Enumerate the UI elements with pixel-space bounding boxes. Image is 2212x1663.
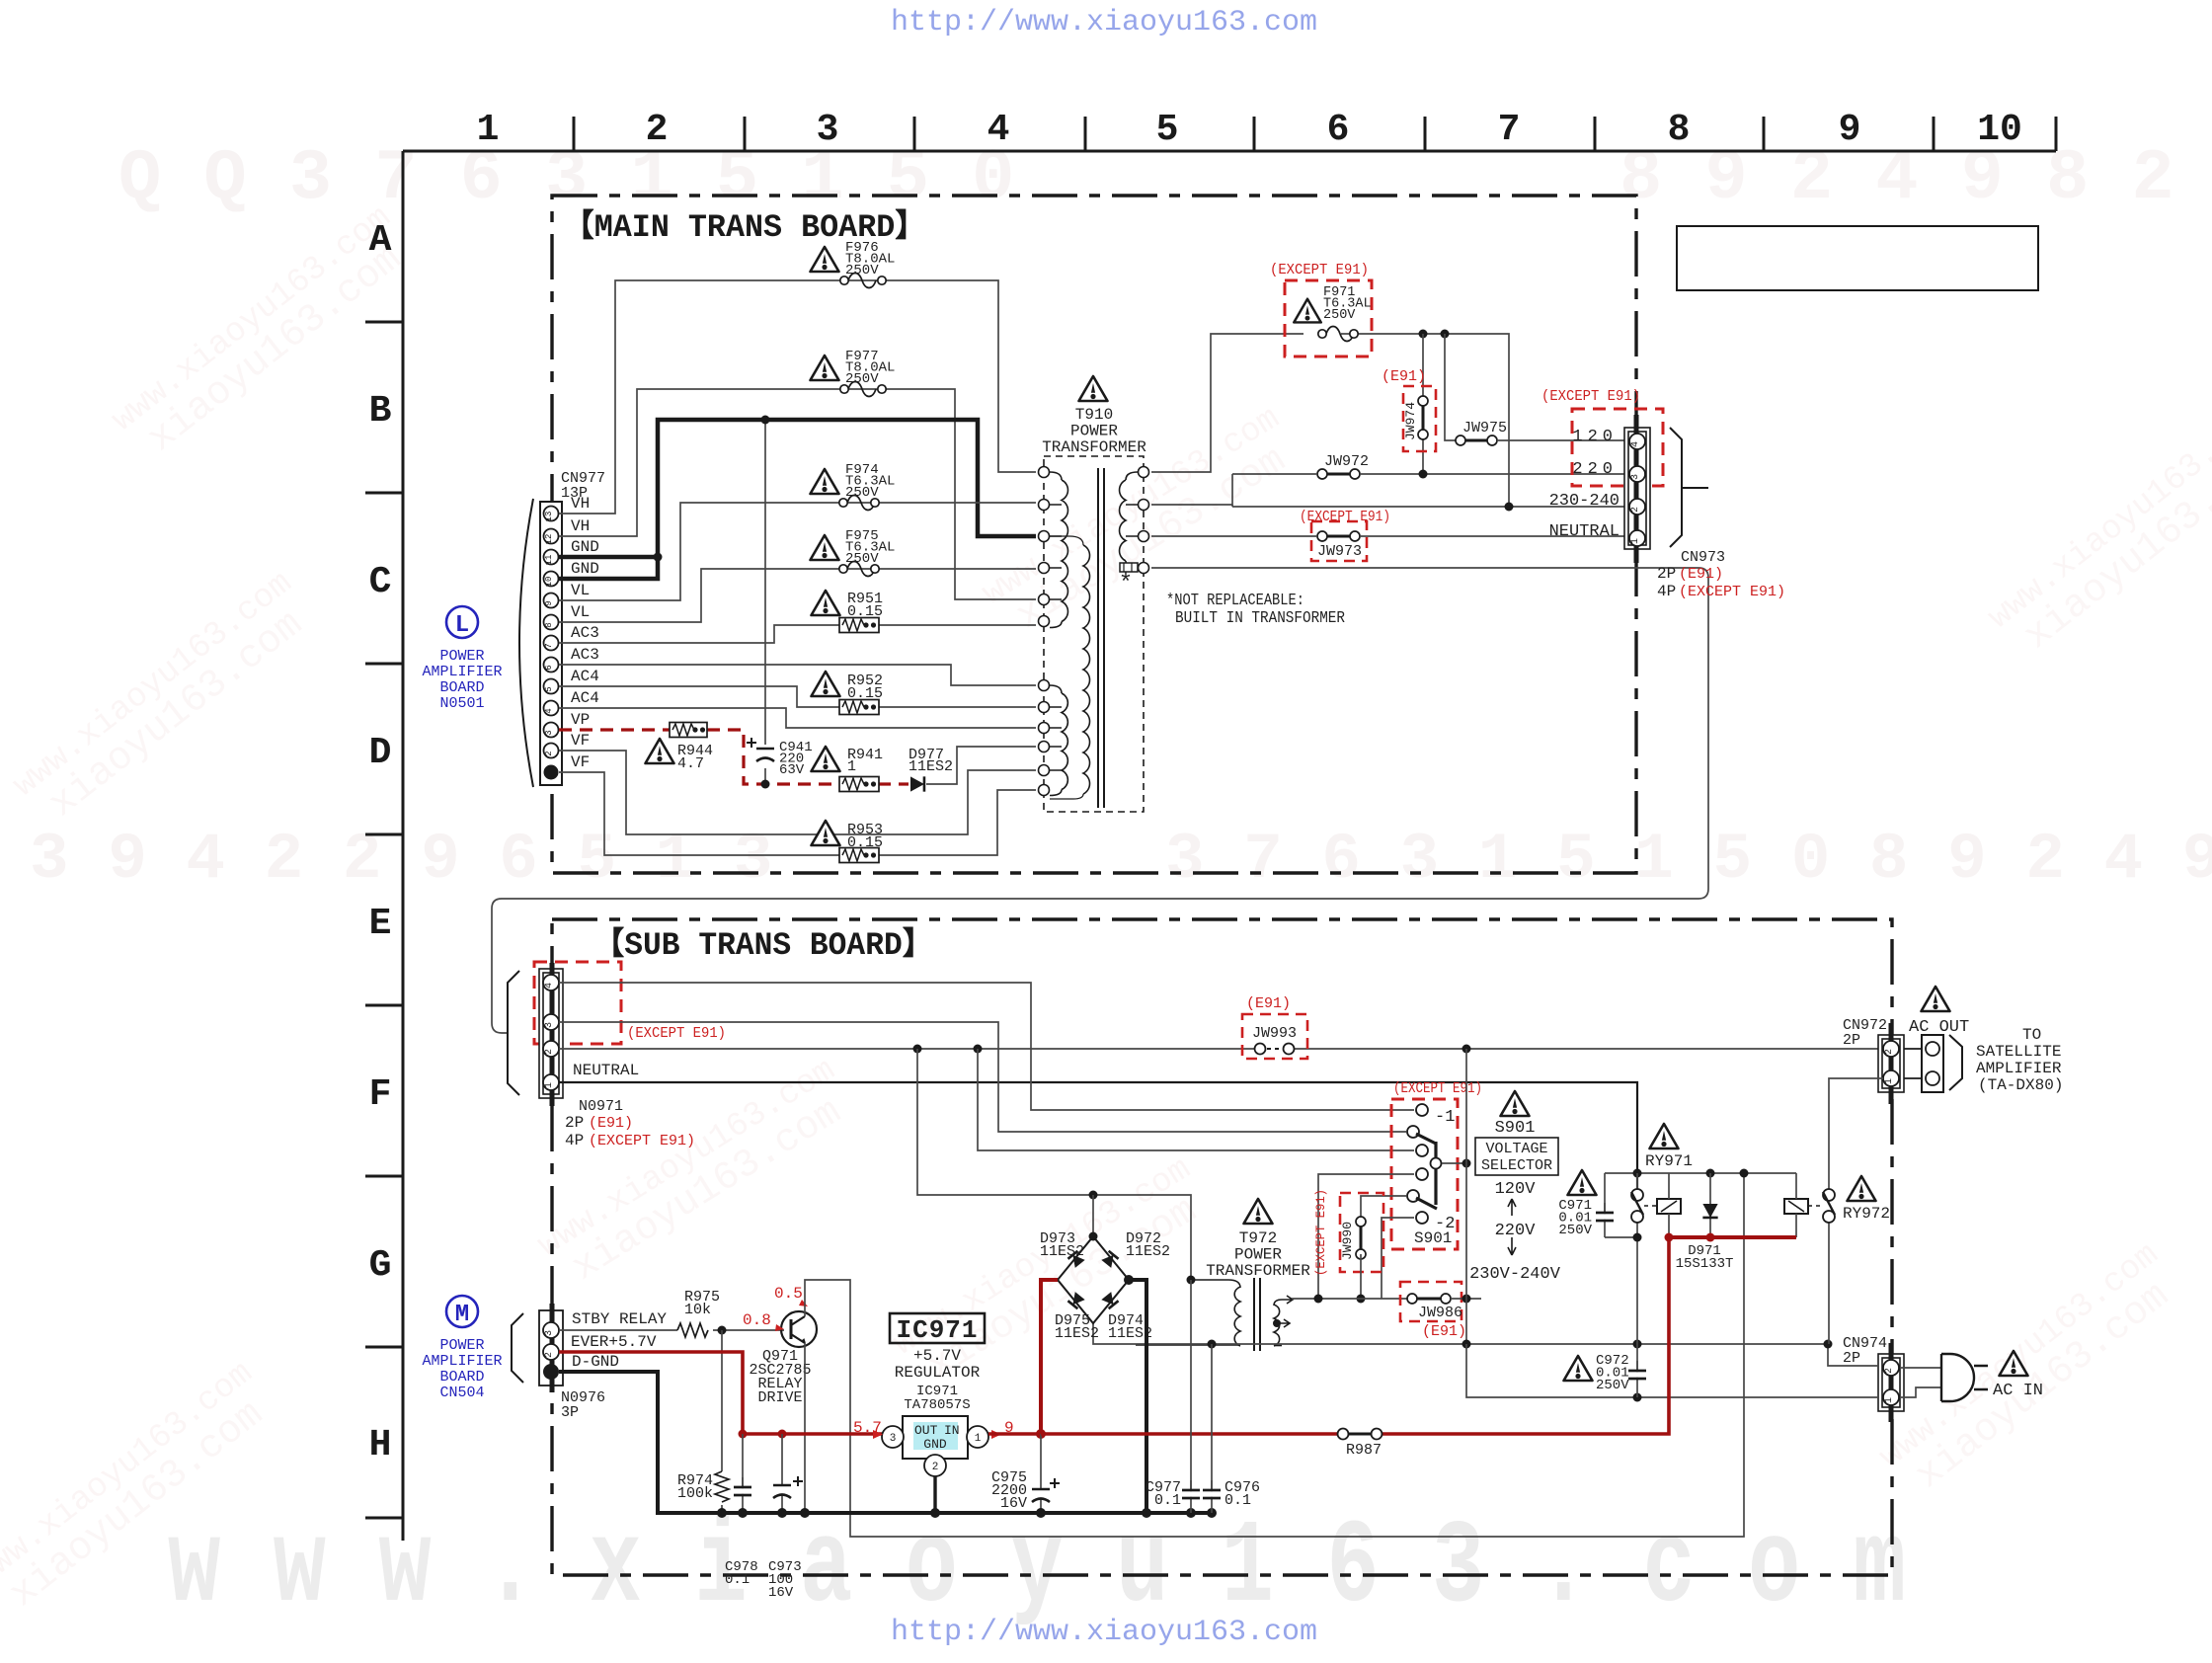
svg-text:2P: 2P bbox=[1843, 1032, 1860, 1049]
svg-text:AMPLIFIER: AMPLIFIER bbox=[422, 1353, 502, 1370]
svg-text:4.7: 4.7 bbox=[677, 755, 704, 772]
svg-text:TRANSFORMER: TRANSFORMER bbox=[1042, 438, 1146, 456]
svg-text:63V: 63V bbox=[779, 762, 805, 778]
svg-text:R987: R987 bbox=[1346, 1442, 1382, 1459]
relay RY971 warning/label bbox=[1650, 1124, 1679, 1148]
relay coil RY972 bbox=[1784, 1199, 1808, 1214]
transformer T910 right coil bbox=[1126, 472, 1138, 480]
transistor Q971 bbox=[781, 1311, 817, 1347]
svg-text:6: 6 bbox=[544, 665, 554, 670]
svg-text:D: D bbox=[369, 732, 392, 774]
svg-text:1: 1 bbox=[1630, 538, 1641, 544]
svg-text:(E91): (E91) bbox=[1679, 566, 1723, 583]
capacitor C973 bbox=[781, 1434, 783, 1513]
svg-text:AC3: AC3 bbox=[571, 624, 599, 642]
svg-text:0.5: 0.5 bbox=[774, 1285, 803, 1303]
svg-text:2: 2 bbox=[544, 1049, 555, 1055]
svg-text:POWER: POWER bbox=[1070, 423, 1118, 440]
power amplifier board L circle bbox=[446, 606, 478, 638]
svg-text:JW990: JW990 bbox=[1340, 1222, 1355, 1260]
wire red to R987 to relay bbox=[1041, 1237, 1669, 1434]
wire AC4 pin5 to R952 to T910 pin8 bbox=[559, 686, 1036, 707]
junction C941 top bbox=[761, 416, 770, 425]
svg-text:3: 3 bbox=[817, 109, 839, 151]
svg-text:(TA-DX80): (TA-DX80) bbox=[1978, 1076, 2063, 1094]
bridge rectifier outline bbox=[1058, 1236, 1129, 1323]
transformer T972 primary coil bbox=[1274, 1300, 1282, 1306]
svg-text:0.1: 0.1 bbox=[1224, 1492, 1251, 1509]
svg-text:TO: TO bbox=[2022, 1026, 2041, 1044]
relay coil RY971 bbox=[1657, 1199, 1681, 1214]
svg-text:VF: VF bbox=[571, 732, 590, 750]
rail bottom junctions bbox=[1633, 1233, 1642, 1242]
main trans board border bbox=[552, 196, 1636, 873]
svg-text:6: 6 bbox=[1327, 109, 1350, 151]
junction C972 bottom bbox=[1633, 1393, 1642, 1402]
svg-text:VF: VF bbox=[571, 753, 590, 771]
svg-text:NEUTRAL: NEUTRAL bbox=[1549, 522, 1619, 541]
svg-text:AC4: AC4 bbox=[571, 668, 599, 685]
capacitor C977 bbox=[1190, 1280, 1192, 1513]
svg-text:2: 2 bbox=[646, 109, 669, 151]
svg-text:220: 220 bbox=[1572, 460, 1618, 479]
AC OUT plug bbox=[1922, 1035, 1943, 1092]
svg-text:AC IN: AC IN bbox=[1993, 1382, 2043, 1400]
fuse F971 red box bbox=[1285, 280, 1372, 356]
svg-text:120: 120 bbox=[1572, 428, 1618, 446]
transformer T972 warning bbox=[1244, 1199, 1273, 1224]
resistor R974 bbox=[721, 1330, 723, 1513]
svg-text:3: 3 bbox=[544, 730, 554, 735]
svg-text:AC3: AC3 bbox=[571, 646, 599, 664]
svg-text:*: * bbox=[1119, 571, 1133, 597]
jumper JW993 red box bbox=[1242, 1014, 1307, 1059]
capacitor C972 bbox=[1636, 1344, 1638, 1397]
gnd junctions bbox=[717, 1508, 727, 1518]
svg-text:8: 8 bbox=[1668, 109, 1691, 151]
svg-text:2P: 2P bbox=[565, 1114, 584, 1132]
fuse F971 bbox=[1294, 299, 1321, 323]
svg-text:11ES2: 11ES2 bbox=[1040, 1243, 1084, 1260]
svg-text:7: 7 bbox=[1498, 109, 1521, 151]
svg-text:OUT: OUT bbox=[914, 1423, 938, 1438]
svg-text:2P: 2P bbox=[1843, 1350, 1860, 1367]
wire T910 pin4 mains cable to sub board bbox=[492, 568, 1708, 1033]
wire VH pin12 to F977 to T910 pin5 bbox=[559, 389, 1036, 599]
wire bottom row T972 to CN974 pin2 bbox=[1093, 1323, 1877, 1366]
svg-text:1: 1 bbox=[477, 109, 500, 151]
svg-text:(E91): (E91) bbox=[1422, 1323, 1466, 1340]
wire STBY row bbox=[559, 1329, 784, 1331]
svg-text:220V: 220V bbox=[1495, 1222, 1537, 1240]
S901 fixed4 wire to JW986 row bbox=[1318, 1174, 1414, 1299]
relay RY972 switch bbox=[1828, 1085, 1830, 1344]
svg-text:-1: -1 bbox=[1435, 1108, 1455, 1127]
svg-text:E: E bbox=[369, 903, 392, 945]
IC971 big label box bbox=[890, 1313, 985, 1343]
svg-text:2: 2 bbox=[544, 1352, 555, 1358]
fuse F975 bbox=[811, 535, 839, 560]
svg-text:VL: VL bbox=[571, 603, 590, 621]
N0976 cable bracket bbox=[512, 1313, 523, 1383]
jumper JW973 red box bbox=[1311, 521, 1367, 561]
svg-text:IC971: IC971 bbox=[896, 1315, 978, 1345]
svg-text:4P: 4P bbox=[565, 1132, 584, 1149]
capacitor C978 bbox=[742, 1434, 744, 1513]
svg-text:(EXCEPT E91): (EXCEPT E91) bbox=[1541, 388, 1640, 405]
row ticks bbox=[365, 322, 403, 1518]
fuse F976 bbox=[811, 247, 839, 272]
svg-text:JW993: JW993 bbox=[1252, 1025, 1297, 1042]
svg-text:RY972: RY972 bbox=[1843, 1205, 1890, 1223]
svg-text:250V: 250V bbox=[1596, 1378, 1629, 1393]
wire VL pin9 to F974 to T910 pin2 bbox=[559, 503, 1036, 600]
svg-text:STBY RELAY: STBY RELAY bbox=[572, 1310, 667, 1328]
S901 -2 wire down bbox=[1382, 1218, 1414, 1299]
N0971 cable bracket bbox=[508, 971, 519, 1095]
transformer T972 core bbox=[1254, 1278, 1260, 1351]
svg-text:2P: 2P bbox=[1657, 565, 1676, 583]
wire R953 out under transformer bbox=[559, 772, 1036, 855]
junction C941 red bbox=[761, 780, 770, 789]
transformer T972 primary top pin arrow bbox=[1282, 1296, 1293, 1304]
svg-text:JW974: JW974 bbox=[1403, 402, 1418, 440]
jumper JW974 bbox=[1422, 334, 1424, 474]
svg-text:230V-240V: 230V-240V bbox=[1469, 1265, 1561, 1284]
svg-text:AMPLIFIER: AMPLIFIER bbox=[422, 664, 502, 680]
resistor R951 bbox=[812, 591, 840, 615]
junction JW990 bottom bbox=[1357, 1295, 1366, 1304]
svg-text:11: 11 bbox=[544, 555, 554, 566]
svg-text:CN973: CN973 bbox=[1681, 549, 1725, 566]
capacitor C971 bbox=[1604, 1173, 1606, 1237]
svg-text:C: C bbox=[369, 561, 392, 603]
svg-text:250V: 250V bbox=[845, 371, 879, 387]
wire C941 riser bbox=[764, 420, 766, 784]
svg-text:S901: S901 bbox=[1495, 1119, 1536, 1138]
relay rail bottom bbox=[1605, 1236, 1637, 1238]
svg-text:10k: 10k bbox=[684, 1302, 711, 1318]
column ticks bbox=[574, 117, 2056, 151]
junction JW986 right bbox=[1462, 1295, 1471, 1304]
svg-text:IN: IN bbox=[944, 1423, 960, 1438]
svg-text:M: M bbox=[455, 1302, 469, 1328]
connector CN973 bbox=[1624, 428, 1650, 549]
wire GND pins bold to T910 pin3 bbox=[559, 420, 1036, 579]
svg-text:SATELLITE: SATELLITE bbox=[1976, 1043, 2061, 1061]
svg-text:3: 3 bbox=[544, 1330, 555, 1336]
svg-text:TA78057S: TA78057S bbox=[904, 1397, 970, 1413]
svg-text:CN504: CN504 bbox=[439, 1385, 484, 1401]
svg-text:16V: 16V bbox=[768, 1585, 794, 1601]
svg-text:1: 1 bbox=[847, 758, 856, 775]
wire N0971 pin4 to S901 -1 bbox=[559, 983, 1414, 1110]
svg-text:8: 8 bbox=[544, 622, 554, 627]
svg-text:0.15: 0.15 bbox=[847, 685, 883, 702]
junction GND bbox=[654, 553, 663, 562]
svg-text:0.1: 0.1 bbox=[1154, 1492, 1181, 1509]
AC IN plug bbox=[1941, 1354, 1974, 1401]
svg-text:250V: 250V bbox=[845, 263, 879, 278]
svg-text:H: H bbox=[369, 1424, 392, 1466]
wire JW993 drop to S901 fixed bbox=[978, 1049, 1414, 1150]
svg-text:250V: 250V bbox=[1558, 1223, 1592, 1238]
svg-text:9: 9 bbox=[544, 600, 554, 605]
svg-text:120V: 120V bbox=[1495, 1180, 1537, 1199]
svg-text:BOARD: BOARD bbox=[439, 1369, 484, 1386]
junction row1062 c bbox=[1462, 1045, 1471, 1054]
svg-text:4: 4 bbox=[1630, 441, 1641, 447]
fuse F974 bbox=[811, 469, 839, 494]
svg-text:(EXCEPT E91): (EXCEPT E91) bbox=[1393, 1080, 1482, 1097]
diode D974 bbox=[1101, 1292, 1118, 1308]
wire D977 out to T910 pin10 bbox=[926, 747, 1036, 784]
svg-text:5: 5 bbox=[1156, 109, 1179, 151]
switch S901 contacts bbox=[1416, 1104, 1428, 1116]
IC971 pin1 bbox=[967, 1426, 988, 1448]
svg-text:B: B bbox=[369, 390, 392, 433]
power amplifier board M circle bbox=[446, 1296, 478, 1327]
wire AC3 pin6 to T910 pin7 bbox=[559, 665, 1036, 685]
svg-text:L: L bbox=[455, 612, 469, 639]
svg-text:(EXCEPT E91): (EXCEPT E91) bbox=[589, 1133, 695, 1149]
junction primary top bbox=[1314, 1295, 1323, 1304]
svg-text:2: 2 bbox=[932, 1462, 939, 1473]
transformer T910 primary pins left bbox=[1039, 467, 1050, 478]
wire AC3 pin7 to R951 to T910 pin6 bbox=[559, 625, 1036, 643]
junction F971 out b bbox=[1441, 330, 1450, 339]
svg-text:230-240: 230-240 bbox=[1549, 492, 1619, 511]
svg-text:+5.7V: +5.7V bbox=[913, 1347, 961, 1365]
wire Q971 collector to relays bbox=[805, 1173, 1744, 1537]
wire R941 out red to D977 bbox=[878, 782, 908, 785]
transformer T910 middle winding bbox=[1050, 536, 1083, 545]
svg-text:1: 1 bbox=[544, 1082, 555, 1088]
svg-text:http://www.xiaoyu163.com: http://www.xiaoyu163.com bbox=[891, 6, 1317, 40]
svg-text:AC4: AC4 bbox=[571, 689, 599, 707]
svg-text:250V: 250V bbox=[845, 551, 879, 567]
svg-text:10: 10 bbox=[544, 577, 554, 588]
svg-text:10: 10 bbox=[1977, 109, 2022, 151]
connector CN977 bracket bbox=[519, 499, 533, 787]
relay RY971 switch bbox=[1636, 1173, 1638, 1344]
svg-text:JW973: JW973 bbox=[1317, 543, 1362, 560]
junction S901 common bbox=[1462, 1159, 1471, 1168]
jumper JW990 red box bbox=[1340, 1193, 1383, 1272]
junction red a bbox=[739, 1430, 748, 1439]
resistor R953 bbox=[812, 821, 840, 845]
junction red b bbox=[778, 1430, 787, 1439]
junction base/R974 bbox=[718, 1326, 727, 1335]
svg-text:GND: GND bbox=[571, 538, 599, 556]
wire VF pin2 to R953 bbox=[559, 751, 1036, 834]
svg-text:250V: 250V bbox=[845, 485, 879, 501]
svg-text:T910: T910 bbox=[1075, 406, 1113, 424]
junction bridge top bbox=[1089, 1232, 1098, 1241]
rail junctions bbox=[1633, 1169, 1642, 1178]
wire bridge plus red bbox=[1041, 1280, 1058, 1434]
transformer internal thermal fuse bbox=[1120, 563, 1138, 572]
jumper JW986 red box bbox=[1400, 1282, 1461, 1321]
wire NEUTRAL row to RY971 bbox=[559, 1082, 1637, 1189]
svg-text:(EXCEPT E91): (EXCEPT E91) bbox=[1270, 262, 1369, 278]
diode D975 bbox=[1067, 1292, 1084, 1308]
svg-text:(E91): (E91) bbox=[589, 1115, 633, 1132]
svg-text:BOARD: BOARD bbox=[439, 679, 484, 696]
svg-text:VOLTAGE: VOLTAGE bbox=[1485, 1141, 1547, 1157]
svg-text:13: 13 bbox=[544, 512, 554, 522]
svg-text:POWER: POWER bbox=[439, 1337, 484, 1354]
resistor R952 bbox=[812, 672, 840, 696]
AC OUT warning bbox=[1922, 987, 1950, 1011]
svg-text:VH: VH bbox=[571, 495, 590, 513]
junction F971 out a bbox=[1419, 330, 1428, 339]
resistor R975 bbox=[677, 1323, 708, 1337]
svg-text:3: 3 bbox=[890, 1433, 897, 1445]
transformer T910 warning bbox=[1079, 376, 1108, 401]
junction 230-240 bbox=[1505, 503, 1514, 512]
wire EVER row N0971 pin2 to CN972 pin2 through JW993 bbox=[559, 1048, 1883, 1050]
svg-text:POWER: POWER bbox=[439, 648, 484, 665]
IC971 pin2 bbox=[924, 1455, 946, 1476]
junction row1062 a bbox=[913, 1045, 922, 1054]
svg-text:100k: 100k bbox=[677, 1485, 713, 1502]
svg-text:(EXCEPT E91): (EXCEPT E91) bbox=[1679, 584, 1785, 600]
junction sec top bbox=[1187, 1276, 1196, 1285]
IC971 pin3 bbox=[882, 1426, 904, 1448]
svg-text:(EXCEPT E91): (EXCEPT E91) bbox=[627, 1025, 726, 1042]
title box top right bbox=[1677, 226, 2038, 290]
junction bridge right bbox=[1124, 1275, 1134, 1285]
switch S901 red box bbox=[1391, 1099, 1458, 1249]
svg-text:2: 2 bbox=[1630, 507, 1641, 513]
wire VP red dashed through R944 bbox=[559, 728, 671, 731]
svg-text:2: 2 bbox=[1884, 1049, 1895, 1055]
svg-text:1: 1 bbox=[975, 1433, 982, 1445]
capacitor C976 bbox=[1211, 1344, 1213, 1513]
svg-text:AMPLIFIER: AMPLIFIER bbox=[1976, 1060, 2062, 1077]
junction bottom row c bbox=[1633, 1340, 1642, 1349]
svg-text:JW975: JW975 bbox=[1462, 420, 1507, 436]
wire T910 pin3 neutral bbox=[1151, 535, 1316, 537]
border ruler top line bbox=[403, 150, 2056, 153]
transformer T972 secondary coil bbox=[1191, 1280, 1240, 1288]
svg-text:(EXCEPT E91): (EXCEPT E91) bbox=[1300, 509, 1390, 525]
wire CN972 pin1 to RY972 bbox=[1829, 1078, 1883, 1085]
relay RY972 warning/label bbox=[1848, 1176, 1876, 1201]
svg-text:4: 4 bbox=[544, 708, 554, 713]
diode D971 bbox=[1709, 1173, 1711, 1237]
svg-text:16V: 16V bbox=[1000, 1495, 1027, 1512]
vertical JW993 to CN974 bbox=[1465, 1049, 1467, 1344]
wire bridge minus black bbox=[1129, 1280, 1146, 1513]
svg-text:(EXCEPT E91): (EXCEPT E91) bbox=[1313, 1189, 1328, 1276]
svg-text:(E91): (E91) bbox=[1246, 995, 1291, 1012]
svg-text:N0971: N0971 bbox=[579, 1098, 623, 1115]
relay rail top bbox=[1605, 1172, 1796, 1174]
svg-text:GND: GND bbox=[923, 1437, 947, 1452]
junction bridge drop bbox=[1089, 1191, 1098, 1200]
connector CN974 bbox=[1878, 1354, 1904, 1411]
svg-text:VH: VH bbox=[571, 517, 590, 535]
svg-text:G: G bbox=[369, 1244, 392, 1287]
svg-text:11ES2: 11ES2 bbox=[1126, 1243, 1170, 1260]
svg-text:1: 1 bbox=[1884, 1397, 1895, 1403]
svg-text:VL: VL bbox=[571, 582, 590, 599]
svg-text:11ES2: 11ES2 bbox=[908, 758, 953, 775]
svg-text:15S133T: 15S133T bbox=[1676, 1256, 1734, 1272]
svg-text:9: 9 bbox=[1839, 109, 1861, 151]
capacitor C975 bbox=[1040, 1434, 1042, 1513]
svg-text:(E91): (E91) bbox=[1382, 368, 1426, 385]
regulator IC971 body bbox=[903, 1416, 968, 1459]
svg-text:12: 12 bbox=[544, 534, 554, 545]
svg-text:5: 5 bbox=[544, 686, 554, 691]
connector N0976 bbox=[539, 1310, 563, 1386]
junction bottom row a bbox=[1208, 1340, 1217, 1349]
svg-text:EVER+5.7V: EVER+5.7V bbox=[571, 1333, 657, 1351]
svg-text:1: 1 bbox=[1884, 1078, 1895, 1084]
svg-text:RY971: RY971 bbox=[1645, 1152, 1693, 1170]
wire Q971 emitter to gnd bbox=[804, 1343, 806, 1513]
connector N0971 red box bbox=[534, 962, 621, 1044]
fuse F977 bbox=[811, 356, 839, 380]
svg-text:3 7 6 3 1 5 1 5 0 8 9 2 4 9: 3 7 6 3 1 5 1 5 0 8 9 2 4 9 bbox=[1165, 823, 2212, 897]
wire IC971 out to bridge red bbox=[988, 1432, 1041, 1436]
svg-text:D-GND: D-GND bbox=[572, 1353, 619, 1371]
transformer T910 box bbox=[1044, 456, 1144, 812]
svg-text:0.15: 0.15 bbox=[847, 603, 883, 620]
watermark diagonal stamps bbox=[106, 199, 425, 473]
svg-text:250V: 250V bbox=[1323, 308, 1356, 323]
transformer T910 core bbox=[1098, 468, 1104, 808]
svg-text:3P: 3P bbox=[561, 1404, 579, 1421]
wire T910 right pin1 to F971 row bbox=[1151, 334, 1303, 472]
svg-text:T972: T972 bbox=[1239, 1229, 1277, 1247]
connector CN977 bbox=[540, 502, 562, 785]
svg-text:3: 3 bbox=[544, 1022, 555, 1028]
junction bottom row d bbox=[1824, 1340, 1833, 1349]
svg-text:4P: 4P bbox=[1657, 583, 1676, 600]
wire T972 primary top to JW986 bbox=[1292, 1298, 1422, 1300]
S901 moving2 wire to JW990 bbox=[1361, 1196, 1406, 1217]
svg-text:REGULATOR: REGULATOR bbox=[895, 1364, 981, 1382]
svg-text:2: 2 bbox=[1884, 1368, 1895, 1374]
svg-text:NEUTRAL: NEUTRAL bbox=[573, 1062, 639, 1079]
wire VH pin13 to F976 to T910 pin1 bbox=[559, 280, 1036, 514]
voltage selector box bbox=[1475, 1138, 1558, 1175]
svg-text:JW972: JW972 bbox=[1324, 453, 1369, 470]
svg-text:0.1: 0.1 bbox=[725, 1572, 750, 1588]
wire CN974 pin1 row bbox=[1466, 1344, 1877, 1397]
transformer T972 primary tap bbox=[1273, 1319, 1281, 1327]
diode D973 bbox=[1067, 1251, 1084, 1268]
connector N0971 bbox=[539, 969, 563, 1098]
svg-text:SELECTOR: SELECTOR bbox=[1481, 1157, 1552, 1174]
svg-text:JW986: JW986 bbox=[1418, 1305, 1462, 1321]
svg-text:TRANSFORMER: TRANSFORMER bbox=[1206, 1262, 1310, 1280]
svg-text:0.8: 0.8 bbox=[743, 1311, 771, 1329]
svg-text:POWER: POWER bbox=[1234, 1246, 1282, 1264]
CN973 cable bracket bbox=[1670, 428, 1682, 547]
svg-text:S901: S901 bbox=[1414, 1229, 1452, 1247]
jumper JW990 bbox=[1356, 1217, 1366, 1259]
wire EVER red bbox=[559, 1352, 882, 1434]
wire AC4 pin4 to T910 pin9 bbox=[559, 708, 1036, 728]
svg-text:A: A bbox=[369, 219, 392, 262]
junction bottom row b bbox=[1462, 1340, 1471, 1349]
jumper JW975 bbox=[1445, 334, 1626, 440]
